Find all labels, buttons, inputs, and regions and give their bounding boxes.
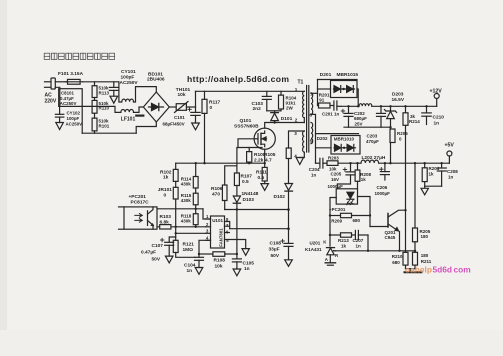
- wire: primary bottom to drain line: [303, 118, 305, 123]
- wire: secondary pin6 elbow down: [311, 114, 316, 163]
- svg-text:1k: 1k: [163, 175, 169, 181]
- svg-text:Q101: Q101: [240, 118, 252, 124]
- resistor R104 91k1 2W: [279, 91, 284, 111]
- svg-text:+12V: +12V: [430, 89, 443, 95]
- capacitor C105 1n: [232, 259, 241, 269]
- svg-text:1: 1: [295, 87, 298, 92]
- svg-text:1n: 1n: [311, 172, 317, 177]
- svg-text:C104: C104: [184, 262, 196, 268]
- wire: LED cathode out left side down the 431 column: [330, 198, 336, 247]
- wire: bridge right vertex to thermistor: [169, 106, 176, 108]
- wire: +12V rail right section: [372, 105, 437, 107]
- wire: U101 pin5 to ground: [225, 240, 246, 249]
- capacitor C203 470uF: [377, 106, 386, 127]
- transformer T1 secondary lower winding pins 6-5: [311, 123, 313, 144]
- svg-text:33µF: 33µF: [269, 247, 280, 253]
- svg-text:1000µF: 1000µF: [328, 184, 344, 189]
- svg-text:C103: C103: [252, 101, 264, 107]
- capacitor C206 1000uF: [380, 163, 390, 180]
- svg-text:180: 180: [421, 253, 429, 258]
- svg-text:R208: R208: [360, 172, 371, 177]
- resistor R201 91 snubber: [318, 103, 334, 108]
- svg-text:100pF: 100pF: [121, 75, 135, 81]
- zener D203 16.5V: [384, 106, 396, 129]
- svg-text:D103: D103: [243, 197, 255, 203]
- svg-text:680: 680: [392, 260, 400, 265]
- svg-text:T1: T1: [298, 80, 304, 86]
- transformer T1 aux winding pins 3-4: [303, 131, 305, 152]
- resistor R204 1k: [422, 163, 427, 186]
- resistor R102 1k: [173, 163, 178, 181]
- wire: opto collector line y208.8: [157, 208, 203, 210]
- svg-text:AC250V: AC250V: [66, 121, 83, 126]
- diode D101 snubber: [271, 111, 279, 123]
- svg-text:R203: R203: [328, 155, 339, 160]
- node: VCC column junction at VCC row: [287, 227, 290, 230]
- capacitor C210 1n: [422, 106, 431, 124]
- svg-text:R110: R110: [99, 106, 110, 111]
- svg-text:R206: R206: [397, 131, 408, 136]
- svg-text:10k: 10k: [178, 92, 186, 98]
- wire: LF101 top coil up and over to bridge top vertex: [134, 87, 157, 102]
- node: pin3 row junction: [175, 232, 177, 234]
- inductor LF101 common-mode choke top coil: [122, 99, 134, 102]
- diode D102: [285, 184, 293, 192]
- capacitor C107 0.47uF 50V: [160, 237, 175, 256]
- ground: R210/R211 common bar: [405, 269, 422, 273]
- fuse F101 3.15A: [66, 79, 83, 84]
- optocoupler PC201 LED side box: [336, 189, 357, 205]
- svg-text:91: 91: [319, 97, 325, 102]
- svg-text:0: 0: [164, 192, 167, 198]
- capacitor C103 2n2: [262, 91, 271, 111]
- svg-text:1k: 1k: [341, 244, 347, 249]
- inductor L202 27uH: [361, 160, 379, 163]
- svg-text:16.5V: 16.5V: [392, 97, 405, 103]
- svg-text:R111: R111: [256, 169, 267, 175]
- svg-text:C208: C208: [447, 169, 458, 174]
- node: Q201 collector junction on R214/R210 column: [404, 209, 406, 211]
- svg-text:R101: R101: [99, 123, 110, 128]
- svg-text:1n: 1n: [434, 121, 440, 127]
- svg-text:0.5: 0.5: [258, 175, 265, 181]
- terminal +12V: [434, 94, 439, 107]
- wire: U101 pin3 stub: [206, 232, 211, 234]
- svg-text:2: 2: [295, 117, 298, 122]
- svg-text:R205: R205: [420, 229, 431, 234]
- wire: D201 top line: [318, 79, 358, 81]
- optocoupler PC201 PC817C transistor side: [119, 207, 158, 229]
- svg-text:oahelp: oahelp: [405, 265, 432, 275]
- svg-text:C204: C204: [309, 167, 320, 172]
- svg-text:D101: D101: [281, 116, 293, 122]
- resistor R106 470: [222, 166, 236, 210]
- wire: box right side line to Q201 column: [358, 197, 371, 227]
- node: ref row junctions: [367, 250, 416, 252]
- wire: R107/D103 column down to C105: [236, 210, 238, 259]
- wire: drain line from transformer pin 2 to Q101: [265, 123, 305, 129]
- wire: U101 pin1 left elbow to opto line: [203, 209, 211, 219]
- wire: U101 pin6 stub: [225, 232, 230, 234]
- svg-text:5: 5: [310, 139, 313, 144]
- node: VCC column junction at CS row: [287, 208, 290, 211]
- ground: U101 pin5 triangle: [242, 249, 249, 256]
- wire: bridge bottom vertex to lower return line: [136, 122, 156, 133]
- svg-text:BD101: BD101: [148, 72, 163, 78]
- svg-text:JR101: JR101: [158, 187, 172, 193]
- svg-text:220V: 220V: [45, 99, 57, 105]
- resistor R108 10k timing: [199, 252, 237, 256]
- node: R118 bottom junction: [195, 226, 197, 228]
- svg-text:3: 3: [294, 131, 297, 136]
- resistor R108 2.2k gate: [247, 148, 252, 164]
- svg-text:http://oahelp.5d6d.com: http://oahelp.5d6d.com: [187, 74, 289, 84]
- svg-text:D203: D203: [392, 92, 404, 98]
- svg-text:180: 180: [421, 234, 429, 239]
- transistor Q101 SSS7N60B MOSFET: [254, 128, 275, 149]
- transformer T1 core: [307, 86, 309, 153]
- ground: CY101 earth arrow: [110, 96, 118, 103]
- node: R213 junction on 431 column: [329, 234, 331, 236]
- svg-text:1N4148: 1N4148: [242, 191, 259, 197]
- svg-text:7: 7: [310, 92, 313, 97]
- wire: D202 upper line: [316, 133, 359, 135]
- svg-text:10k: 10k: [215, 263, 223, 269]
- ground: R204 earth arrow: [421, 186, 428, 195]
- wire: R107 top column from y147 line: [236, 148, 238, 174]
- bridge rectifier BD101 internal diode: [149, 103, 164, 110]
- svg-text:680: 680: [353, 218, 361, 223]
- AC input plug J101: [45, 78, 60, 106]
- wire: VCC row to C108 column: [230, 228, 289, 230]
- svg-text:+5V: +5V: [445, 142, 455, 148]
- svg-text:C201 1n: C201 1n: [322, 111, 340, 116]
- wire: aux pin3 to R105 column: [289, 131, 305, 148]
- wire: U101 pin2 stub: [206, 226, 211, 228]
- svg-text:1n: 1n: [244, 266, 250, 272]
- wire: pin3 row: [176, 232, 206, 234]
- svg-text:R105: R105: [264, 152, 276, 158]
- svg-text:1MΩ: 1MΩ: [183, 247, 194, 253]
- svg-text:R209: R209: [331, 218, 342, 223]
- svg-text:6: 6: [310, 112, 313, 117]
- svg-text:U101: U101: [212, 218, 223, 223]
- svg-text:R108: R108: [214, 258, 226, 264]
- diode D202 MBR1010 dual schottky box: [331, 136, 360, 155]
- svg-text:R103: R103: [160, 214, 172, 220]
- wire: +5V rail left of C204: [316, 162, 320, 164]
- svg-text:2W: 2W: [286, 106, 294, 111]
- resistor R213 1k: [330, 233, 355, 237]
- svg-text:4.7: 4.7: [265, 157, 272, 163]
- thermistor TH101 10k: [175, 102, 189, 113]
- svg-text:2n2: 2n2: [253, 106, 262, 112]
- resistor R118 430k: [193, 205, 198, 227]
- title 液晶显示器电源电路图 (fake CJK glyph marks): [44, 53, 114, 59]
- svg-text:R210: R210: [392, 254, 403, 259]
- svg-text:AC250V: AC250V: [120, 80, 139, 86]
- wire: D102 cathode down to VCC node / C108: [288, 191, 290, 243]
- svg-text:C207: C207: [353, 238, 364, 243]
- svg-text:C945: C945: [385, 235, 396, 240]
- svg-text:1k: 1k: [361, 177, 367, 182]
- svg-text:430k: 430k: [181, 182, 192, 187]
- wire: U101 pin1 stub: [206, 218, 211, 220]
- wire: U101 pin7 stub: [225, 225, 230, 227]
- svg-text:com: com: [454, 265, 471, 275]
- svg-text:R107: R107: [241, 174, 253, 180]
- svg-text:5d6d: 5d6d: [433, 265, 453, 275]
- wire: LF101 bottom coil to bridge left vertex: [134, 107, 144, 112]
- wire: HV rail to transformer pin 1: [196, 90, 305, 92]
- wire: pin2/FB row y226.8: [157, 226, 206, 228]
- svg-text:F101 3.15A: F101 3.15A: [58, 71, 84, 77]
- svg-text:470µF: 470µF: [366, 139, 379, 144]
- capacitor C207 1n: [355, 230, 368, 239]
- resistor R121 1M: [173, 240, 195, 257]
- node: rail junctions: [347, 105, 427, 107]
- svg-text:R121: R121: [183, 242, 195, 248]
- wire: rail elbow down to LF101 top coil: [119, 82, 122, 102]
- inductor LF101 common-mode choke bottom coil: [121, 109, 134, 112]
- svg-text:430k: 430k: [181, 198, 192, 203]
- diode D201 MBR1015 dual schottky box: [318, 81, 358, 98]
- resistor R110 510k: [92, 98, 97, 114]
- svg-text:D202: D202: [317, 136, 328, 141]
- capacitor C108 33uF 50V: [281, 239, 293, 259]
- svg-text:2BU406: 2BU406: [147, 77, 165, 83]
- node: D101 anode junction on drain line: [273, 121, 275, 123]
- svg-text:R113: R113: [99, 90, 110, 95]
- svg-text:C101: C101: [174, 115, 185, 120]
- ground: CY102 earth arrow: [56, 123, 64, 130]
- ground: C107 earth arrow: [165, 256, 173, 263]
- svg-text:25V: 25V: [355, 121, 363, 126]
- svg-text:FAN7601: FAN7601: [218, 228, 223, 247]
- capacitor C104 1n: [195, 257, 204, 267]
- svg-text:3k: 3k: [410, 114, 416, 119]
- wire: R117 bottom long drop to gate node line: [204, 113, 206, 163]
- wire: thick lead bar near left vertex: [136, 114, 143, 116]
- ground: R111 earth arrow: [261, 184, 269, 191]
- wire: box right edge down to lower return line: [81, 106, 83, 133]
- wire: top AC rail from fuse to LF101 elbow: [83, 81, 119, 83]
- svg-text:C206: C206: [377, 185, 388, 190]
- wire: R214 bottom long column down to R210: [405, 125, 407, 252]
- svg-text:68µF/450V: 68µF/450V: [163, 122, 185, 127]
- node: CS row junction at D103 column: [236, 208, 238, 210]
- wire: secondary common line under filters: [344, 126, 391, 128]
- wire: thermistor to C101 node: [186, 106, 195, 108]
- node: R108 row junction at C104 column: [198, 253, 200, 255]
- capacitor C204 1n snubber: [320, 158, 327, 168]
- wire: pin7 column up to D201 top line: [317, 80, 319, 106]
- capacitor C208 1n: [437, 163, 446, 186]
- resistor R210 680: [403, 252, 408, 268]
- svg-text:+PC201: +PC201: [329, 207, 346, 212]
- resistor R114 430k: [193, 163, 198, 188]
- svg-text:1n: 1n: [356, 244, 362, 249]
- svg-text:1n: 1n: [448, 175, 454, 180]
- resistor R205 180: [413, 163, 418, 252]
- svg-text:2.2k: 2.2k: [254, 157, 264, 163]
- node: +5V rail junctions: [349, 162, 443, 164]
- resistor R113 510k: [92, 82, 97, 98]
- wire: +12V output rail: [341, 105, 359, 107]
- wire: second AC line from box bottom to LF101: [82, 106, 121, 112]
- svg-text:R117: R117: [209, 100, 221, 106]
- resistor R206 0: [390, 129, 395, 163]
- node: D203 column crossing: [389, 126, 391, 128]
- ground: C101 earth arrow: [192, 123, 200, 130]
- ground: U201 anode bar: [325, 263, 335, 265]
- svg-text:100pF: 100pF: [67, 116, 80, 121]
- svg-text:Q201: Q201: [385, 230, 397, 235]
- bridge rectifier BD101 2WU06 diamond: [143, 92, 169, 122]
- wire: JR101 bottom down through FB node to R121: [175, 199, 177, 240]
- capacitor CY101 100pF AC250V: [109, 82, 118, 96]
- wire: gate lead left and down to y147 line: [238, 139, 254, 148]
- svg-text:0: 0: [210, 105, 213, 111]
- wire: Q101 source down through R111: [264, 149, 266, 167]
- wire: gate node line y147: [238, 147, 262, 149]
- capacitor C201 1n snubber: [334, 101, 341, 110]
- svg-text:SSS7N60B: SSS7N60B: [234, 124, 259, 130]
- resistor R117 0: [202, 91, 207, 113]
- wire: U101 pin4 to C104: [199, 240, 211, 257]
- svg-text:U201: U201: [310, 240, 321, 245]
- svg-text:50V: 50V: [271, 253, 280, 259]
- svg-text:1k: 1k: [429, 172, 435, 177]
- svg-text:AC250V: AC250V: [60, 101, 77, 106]
- resistor R107 0.5: [234, 173, 239, 186]
- svg-text:MBR1010: MBR1010: [334, 137, 355, 142]
- resistor R105 4.7: [286, 148, 291, 184]
- terminal +5V: [447, 151, 452, 163]
- svg-text:C203: C203: [367, 134, 378, 139]
- svg-text:MBR1015: MBR1015: [337, 72, 359, 78]
- svg-text:1n: 1n: [187, 268, 193, 274]
- resistor R115 430k: [193, 188, 198, 205]
- wire: R107 bottom to D103: [236, 186, 238, 197]
- resistor R103 6.8k: [160, 225, 171, 229]
- svg-text:R214: R214: [409, 119, 420, 124]
- node: junctions on y163 line: [195, 162, 266, 164]
- capacitor C8101 0.47uF AC250V (X-cap box): [59, 89, 82, 107]
- svg-text:1000µF: 1000µF: [375, 191, 391, 196]
- svg-text:R102: R102: [160, 169, 172, 175]
- resistor R101 510k: [92, 113, 97, 133]
- svg-text:50V: 50V: [152, 256, 161, 262]
- ground: C104 earth arrow: [195, 268, 203, 275]
- capacitor C205 1000uF 16V: [337, 163, 355, 189]
- transistor Q201 C945: [370, 210, 406, 251]
- node: FB row junction: [175, 226, 177, 228]
- svg-text:4: 4: [294, 153, 297, 158]
- capacitor C202 680uF 25V: [341, 106, 353, 127]
- IC U101 FAN7601: [211, 216, 225, 248]
- resistor R211 180: [413, 252, 418, 268]
- svg-text:R211: R211: [421, 259, 432, 264]
- ground: C108 earth arrow: [285, 260, 293, 267]
- wire: AC live line to fuse: [55, 81, 67, 83]
- svg-text:R204: R204: [429, 166, 440, 171]
- jumper JR101 0: [173, 181, 178, 199]
- svg-text:L202 27µH: L202 27µH: [362, 155, 386, 161]
- svg-text:6.8k: 6.8k: [160, 219, 170, 225]
- svg-text:C108: C108: [270, 240, 282, 246]
- wire: horizontal node line y163 from R102 to pin7 column: [176, 162, 265, 164]
- wire: +5V rail right section: [379, 162, 450, 164]
- resistor R209 680: [330, 213, 370, 217]
- svg-text:430k: 430k: [181, 219, 192, 224]
- wire: U101 pin4 stub: [206, 239, 211, 241]
- node: junction at R108 row: [236, 253, 238, 255]
- ground: C105 earth arrow: [233, 269, 241, 276]
- wire: ref row to divider junction: [334, 250, 416, 252]
- wire: secondary pin7 stub to snubber column: [311, 92, 318, 94]
- node: R115/R118 junction on opto line: [195, 208, 197, 210]
- svg-text:R106: R106: [211, 186, 223, 192]
- wire: R204/C208 bottom row: [425, 185, 442, 187]
- wire: feed into D202 anodes: [316, 147, 332, 149]
- resistor R214 3k: [403, 106, 408, 125]
- wire: aux pin4 to ground: [300, 152, 305, 157]
- resistor R111 0.5 current sense: [262, 167, 267, 183]
- svg-text:470: 470: [212, 191, 220, 197]
- inductor L201 on +12V rail: [359, 104, 372, 106]
- node: R209 junction on 431 column: [329, 214, 331, 216]
- capacitor C101 68uF/450V: [188, 107, 200, 123]
- ground: aux pin4 earth arrow: [296, 158, 303, 165]
- wire: C207 down to ref row: [367, 235, 369, 251]
- svg-text:PC817C: PC817C: [131, 199, 150, 205]
- svg-text:LF101: LF101: [121, 116, 136, 122]
- wire: U101 pin8 stub and elbow down to VCC row: [225, 222, 230, 229]
- svg-text:K1A431: K1A431: [305, 247, 322, 252]
- wire: D201 cathode out down to +12V rail: [357, 89, 358, 106]
- wire: CS bottom row extended to VCC column: [225, 209, 289, 211]
- wire: snubber bottom node: [267, 110, 281, 112]
- wire: lower return line to bridge bottom path: [82, 132, 136, 134]
- svg-text:CY101: CY101: [121, 69, 136, 75]
- svg-text:D201: D201: [320, 72, 332, 78]
- svg-text:C105: C105: [243, 260, 255, 266]
- capacitor CY102 100pF AC250V: [55, 106, 63, 122]
- transformer T1 primary winding pins 1-2: [303, 91, 305, 117]
- wire: C101 node up to HV rail: [195, 91, 197, 107]
- svg-text:+PC201: +PC201: [129, 194, 147, 200]
- svg-text:16V: 16V: [331, 177, 339, 182]
- svg-text:R213: R213: [338, 238, 349, 243]
- watermark oahelp 5d6d com (pink): [405, 265, 471, 275]
- shunt regulator U201 KIA431: [327, 248, 336, 263]
- resistor R208 1k: [355, 163, 360, 189]
- transformer T1 secondary upper winding pins 7-6: [311, 93, 313, 115]
- svg-text:C107: C107: [152, 243, 164, 249]
- diode D103 1N4148: [233, 196, 240, 210]
- svg-text:0.47µF: 0.47µF: [141, 250, 156, 256]
- svg-text:D102: D102: [274, 194, 286, 200]
- node: R209 right junction: [369, 214, 371, 216]
- svg-text:0.5: 0.5: [242, 179, 249, 185]
- svg-text:C210: C210: [433, 115, 445, 121]
- resistor R203 10k snubber: [327, 161, 361, 166]
